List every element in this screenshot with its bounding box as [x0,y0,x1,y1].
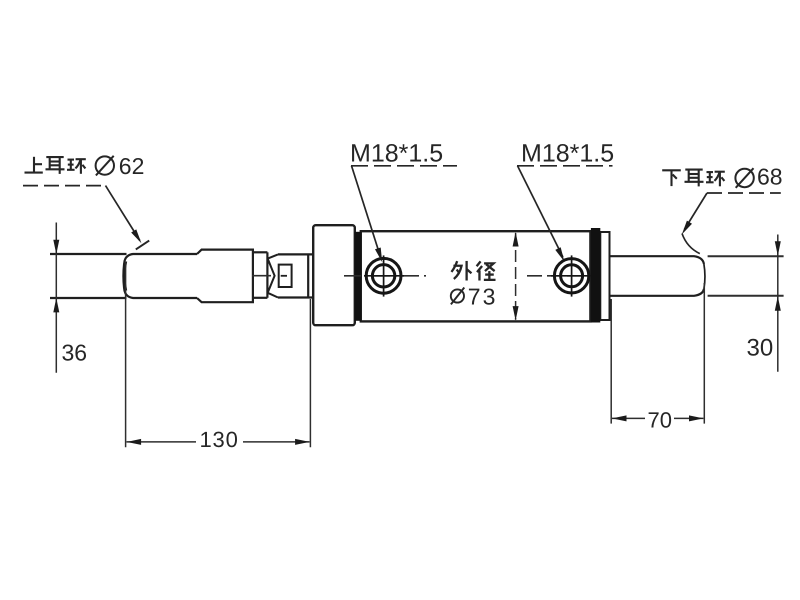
label 上耳环∅62 [25,156,115,176]
rod flat square [279,265,292,287]
jam nut cone [268,254,278,297]
lower ear ring phantom lines [708,256,784,296]
svg-text:M18*1.5: M18*1.5 [521,140,614,168]
head cap [313,225,355,325]
jam nut body [278,254,313,297]
label 下耳环∅68 [662,168,754,188]
port M18 #2 [551,255,591,296]
port M18 #1 [364,255,404,296]
dimension 30 [777,235,779,372]
centerline [252,275,591,277]
leader 下耳环∅68 [682,193,781,254]
svg-text:62: 62 [119,153,145,179]
svg-text:30: 30 [747,335,774,362]
piston rod (right) [610,256,705,296]
svg-text:M18*1.5: M18*1.5 [350,140,443,168]
dimension 70 [611,283,704,424]
piston rod (left) [50,254,127,298]
spacer band [253,252,267,297]
svg-text:36: 36 [62,340,88,366]
rear cap [600,232,609,320]
dimension 130 [126,262,311,447]
svg-text:130: 130 [200,427,239,452]
cylinder barrel [361,231,591,321]
dimension ∅73 arrows [515,233,517,320]
label 外径 ∅73 [451,261,496,304]
upper ear ring body [123,250,253,303]
svg-text:70: 70 [648,408,672,433]
svg-text:68: 68 [757,164,783,190]
svg-text:73: 73 [468,283,498,309]
head cap seal band [355,232,361,321]
leader 上耳环∅62 [23,186,149,250]
rear seal band [591,228,600,323]
leader M18*1.5 #1 [351,166,457,258]
dimension 36 [55,223,57,373]
leader M18*1.5 #2 [517,166,613,257]
